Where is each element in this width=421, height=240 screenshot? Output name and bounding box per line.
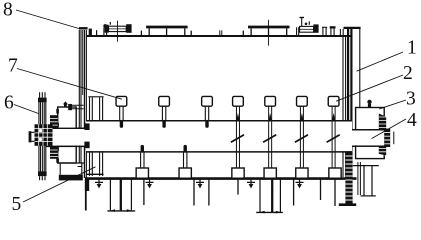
svg-text:4: 4 [407,110,417,131]
vessel right wall [347,29,349,179]
top-right stub 1 [323,28,326,36]
paddle blade slashes [231,135,340,142]
pulley top bolts [40,92,45,97]
bottom paddle stubs [141,152,187,168]
left shaft extension [46,128,87,146]
left partition top cap [88,96,103,98]
left shaft gland flange bolts [84,123,89,148]
top-right stub 3 [340,29,343,36]
svg-text:8: 8 [3,0,13,21]
small nozzle stub with cap [103,24,107,36]
leader line 6 [14,105,39,114]
left bearing block [58,107,85,163]
top paddle stubs (left half) [120,106,209,121]
leader line 8 [16,10,81,29]
svg-text:3: 3 [406,89,416,110]
leader line 1 [357,52,403,71]
svg-text:1: 1 [407,38,417,59]
mid top tick [220,30,222,35]
svg-text:7: 7 [8,56,18,77]
paddle shafts through band (right half) [236,106,335,168]
right side pipe [359,29,361,108]
right outlet pipe lines [358,162,361,195]
leader line 2 [336,75,403,101]
top paddle boxes row [116,96,339,106]
shaft end stub line [393,132,395,145]
right pedestal foot [361,195,376,197]
drive pulley rim [39,100,46,174]
bottom paddle tips inside band [142,147,185,151]
coupling hub block (hatched, over pulley) [35,124,53,146]
left inner wall line [82,30,84,95]
center support leg [256,179,283,214]
thin drop rods below boxes [144,179,335,206]
leader line 7 [17,69,122,100]
right bearing upper block [356,108,385,130]
shaft entry spikes at band top [236,113,335,121]
vessel base line [85,177,357,180]
pulley bottom cap [38,171,47,176]
pulley bottom bolts [40,176,45,180]
nozzle A: flanged pipe [105,21,132,42]
right column foot [339,203,356,206]
left wall feed flange [68,104,83,110]
left bearing foot plate [59,164,83,181]
vessel top line [86,35,352,37]
right hatched column [345,153,352,204]
anchor bolts below base [95,179,304,188]
top-right stub 2 with cap [330,26,336,36]
right bearing base line [353,165,379,167]
right shaft re-draw over blocks [352,130,389,146]
leader line 4 [372,119,407,139]
right pedestal legs [364,166,372,196]
pulley top cap [38,98,47,103]
left support leg [107,179,135,212]
right bearing grease nipple [367,100,371,108]
top-left wall flange ticks [89,29,92,36]
left inner partition verticals [90,97,103,176]
left feed duct verticals [79,30,81,163]
left support step under bearing [78,163,82,178]
manhole B [141,27,191,36]
right bearing lower block [356,146,385,159]
manhole C [243,20,289,46]
nozzle D: flanged pipe with valve stem [297,18,319,36]
shaft end locknut (hatched) [384,129,390,147]
top paddle tips inside band [121,122,207,127]
left shaft stub end [29,131,39,142]
left duct top cap [79,27,88,29]
shaft packing hatch (bearing side) [50,115,58,159]
leader line 5 [23,167,96,202]
left bearing block bolt heads [56,109,59,163]
left compartment floor line [86,173,104,175]
right shaft extension [352,130,389,146]
svg-text:2: 2 [403,63,413,84]
svg-text:5: 5 [12,194,22,215]
shaft tube band [86,121,352,152]
bottom gland boxes row [136,168,341,178]
right bearing hatched rings [379,114,386,156]
left bearing grease nipple [63,101,68,107]
leader line 3 [379,100,406,109]
svg-text:6: 6 [4,92,14,113]
right pipe top cap [344,27,361,29]
left wall lower chute (black bar below base) [85,179,89,191]
right inner partition verticals [343,37,346,177]
vessel left wall [84,30,86,178]
